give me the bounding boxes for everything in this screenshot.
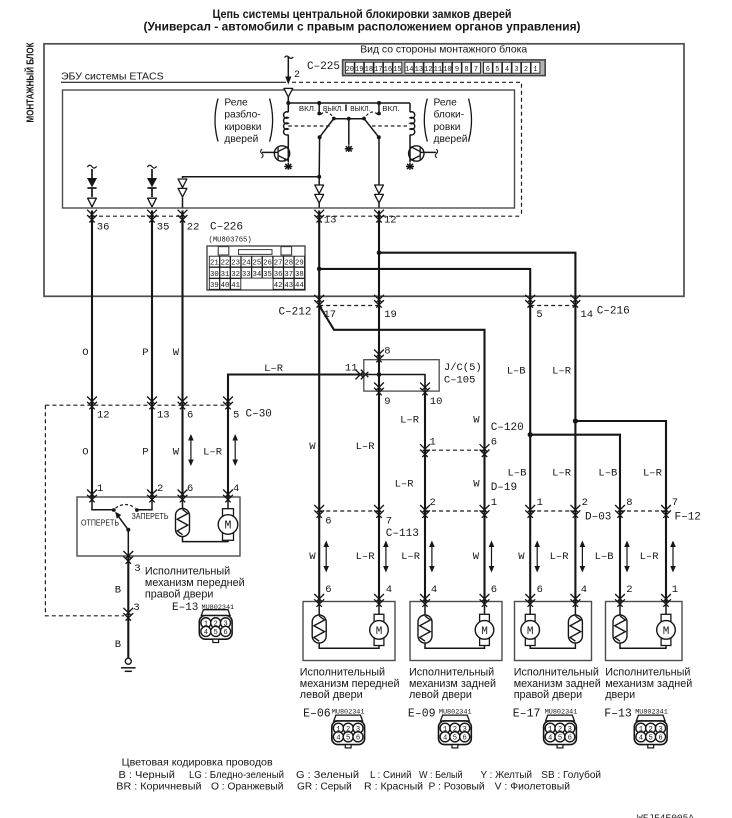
svg-text:J/C(5): J/C(5) (444, 362, 482, 374)
svg-text:25: 25 (253, 260, 262, 268)
svg-text:42: 42 (274, 282, 283, 290)
svg-text:3: 3 (133, 602, 139, 614)
svg-text:29: 29 (295, 260, 304, 268)
svg-text:4: 4 (505, 66, 509, 74)
svg-text:Исполнительный: Исполнительный (145, 566, 230, 578)
svg-text:32: 32 (231, 271, 240, 279)
svg-text:C–226: C–226 (210, 222, 243, 234)
svg-text:ровки: ровки (434, 122, 461, 133)
svg-text:2: 2 (430, 497, 436, 509)
svg-text:MU802341: MU802341 (202, 604, 235, 612)
svg-text:левой двери: левой двери (300, 689, 363, 701)
svg-text:механизм задней: механизм задней (409, 678, 496, 690)
svg-text:ЗАПЕРЕТЬ: ЗАПЕРЕТЬ (132, 512, 169, 521)
svg-text:L–R: L–R (552, 366, 572, 378)
svg-text:21: 21 (210, 260, 219, 268)
svg-text:35: 35 (263, 271, 272, 279)
svg-text:E–13: E–13 (172, 602, 198, 614)
svg-text:O: O (82, 347, 88, 359)
svg-text:MU802341: MU802341 (439, 709, 472, 717)
svg-text:23: 23 (231, 260, 240, 268)
svg-text:7: 7 (386, 516, 392, 528)
svg-text:MU802341: MU802341 (545, 709, 578, 717)
svg-text:механизм передней: механизм передней (300, 678, 400, 690)
svg-text:P: P (142, 447, 148, 459)
svg-text:7: 7 (474, 66, 478, 74)
svg-text:39: 39 (210, 282, 219, 290)
svg-text:W: W (309, 551, 316, 563)
svg-text:6: 6 (491, 584, 497, 596)
svg-text:24: 24 (242, 260, 251, 268)
svg-text:8: 8 (464, 66, 468, 74)
svg-text:ОТПЕРЕТЬ: ОТПЕРЕТЬ (81, 518, 119, 527)
svg-text:правой двери: правой двери (514, 689, 582, 701)
svg-text:C–216: C–216 (597, 306, 630, 318)
svg-text:4: 4 (431, 584, 437, 596)
svg-text:44: 44 (295, 282, 304, 290)
svg-text:10: 10 (430, 396, 443, 408)
svg-text:27: 27 (274, 260, 283, 268)
svg-text:кировки: кировки (224, 122, 261, 133)
svg-text:P : Розовый: P : Розовый (429, 782, 485, 793)
svg-text:40: 40 (221, 282, 230, 290)
svg-text:L–R: L–R (356, 441, 376, 453)
svg-text:M: M (225, 520, 232, 533)
svg-text:W: W (309, 441, 316, 453)
svg-text:E–06: E–06 (303, 707, 331, 720)
svg-text:дверей: дверей (434, 134, 468, 145)
svg-text:14: 14 (405, 66, 413, 74)
svg-text:механизм передней: механизм передней (145, 577, 245, 589)
svg-text:Исполнительный: Исполнительный (514, 667, 599, 679)
svg-text:ЭБУ системы ETACS: ЭБУ системы ETACS (61, 71, 164, 83)
svg-text:F–12: F–12 (675, 512, 701, 524)
svg-text:механизм задней: механизм задней (605, 678, 692, 690)
svg-text:33: 33 (242, 271, 251, 279)
svg-text:4: 4 (581, 584, 587, 596)
svg-text:6: 6 (187, 410, 193, 422)
svg-text:W: W (173, 447, 180, 459)
svg-text:W: W (473, 479, 480, 491)
svg-text:7: 7 (672, 497, 678, 509)
svg-text:16: 16 (384, 66, 392, 74)
svg-text:L–R: L–R (395, 479, 415, 491)
svg-text:C–30: C–30 (246, 409, 272, 421)
svg-text:17: 17 (374, 66, 382, 74)
svg-text:L–B: L–B (598, 468, 617, 480)
svg-text:LG : Бледно-зеленый: LG : Бледно-зеленый (189, 770, 284, 781)
svg-text:BR : Коричневый: BR : Коричневый (116, 782, 201, 793)
svg-text:2: 2 (157, 483, 163, 495)
svg-text:W : Белый: W : Белый (419, 770, 463, 781)
svg-text:G : Зеленый: G : Зеленый (296, 770, 359, 781)
svg-text:L–R: L–R (203, 447, 223, 459)
svg-text:14: 14 (580, 309, 593, 321)
svg-text:разбло-: разбло- (224, 109, 260, 121)
svg-text:17: 17 (324, 309, 337, 321)
svg-text:19: 19 (384, 309, 397, 321)
svg-text:11: 11 (434, 66, 442, 74)
svg-text:C–212: C–212 (278, 307, 311, 319)
svg-text:WFJE4E005A: WFJE4E005A (637, 813, 694, 818)
svg-text:V : Фиолетовый: V : Фиолетовый (495, 782, 570, 793)
svg-text:C–225: C–225 (307, 61, 340, 73)
svg-text:Вид со стороны монтажного блок: Вид со стороны монтажного блока (360, 43, 527, 55)
svg-text:1: 1 (430, 437, 436, 449)
svg-text:ВКЛ.: ВКЛ. (382, 104, 399, 113)
svg-text:F–13: F–13 (604, 707, 632, 720)
svg-text:3: 3 (514, 66, 518, 74)
svg-text:L–R: L–R (401, 551, 421, 563)
svg-text:3: 3 (134, 563, 140, 575)
svg-text:5: 5 (495, 66, 499, 74)
svg-text:C–120: C–120 (491, 422, 524, 434)
svg-text:4: 4 (233, 483, 239, 495)
svg-text:2: 2 (294, 70, 300, 81)
svg-text:C–113: C–113 (386, 528, 419, 540)
svg-text:6: 6 (491, 437, 497, 449)
svg-text:9: 9 (384, 396, 390, 408)
svg-text:L–R: L–R (400, 415, 420, 427)
svg-text:D–03: D–03 (585, 512, 611, 524)
svg-text:1: 1 (97, 483, 103, 495)
svg-text:1: 1 (491, 497, 497, 509)
svg-text:6: 6 (486, 66, 490, 74)
svg-text:30: 30 (210, 271, 219, 279)
svg-text:E–17: E–17 (513, 707, 541, 720)
svg-text:37: 37 (284, 271, 293, 279)
svg-text:ВЫКЛ.: ВЫКЛ. (350, 104, 370, 113)
svg-text:B: B (115, 585, 121, 597)
svg-text:22: 22 (187, 222, 200, 234)
svg-text:28: 28 (284, 260, 293, 268)
svg-text:ВКЛ.: ВКЛ. (299, 104, 316, 113)
svg-text:R : Красный: R : Красный (364, 782, 423, 793)
svg-text:31: 31 (221, 271, 230, 279)
svg-text:P: P (142, 347, 148, 359)
svg-text:11: 11 (345, 363, 358, 375)
svg-text:6: 6 (537, 584, 543, 596)
svg-text:6: 6 (325, 584, 331, 596)
svg-text:W: W (473, 551, 480, 563)
svg-text:38: 38 (295, 271, 304, 279)
svg-text:W: W (173, 347, 180, 359)
svg-text:C–105: C–105 (444, 375, 476, 387)
svg-text:L–R: L–R (643, 468, 663, 480)
svg-text:L–R: L–R (264, 363, 284, 375)
svg-text:Реле: Реле (224, 98, 248, 109)
svg-text:15: 15 (393, 66, 401, 74)
svg-text:22: 22 (221, 260, 230, 268)
svg-text:MU802341: MU802341 (332, 709, 365, 717)
svg-text:2: 2 (626, 584, 632, 596)
svg-text:36: 36 (274, 271, 283, 279)
svg-text:B: B (115, 639, 121, 651)
svg-text:34: 34 (253, 271, 262, 279)
svg-text:10: 10 (443, 66, 451, 74)
svg-text:GR : Серый: GR : Серый (297, 782, 352, 793)
svg-text:Исполнительный: Исполнительный (409, 667, 494, 679)
svg-text:L–B: L–B (507, 366, 526, 378)
svg-text:19: 19 (355, 66, 363, 74)
svg-text:L–R: L–R (552, 468, 572, 480)
svg-text:(Универсал - автомобили с прав: (Универсал - автомобили с правым располо… (144, 20, 581, 34)
svg-text:5: 5 (233, 410, 239, 422)
svg-text:L : Синий: L : Синий (370, 770, 412, 781)
svg-text:6: 6 (187, 483, 193, 495)
svg-text:26: 26 (263, 260, 272, 268)
svg-text:2: 2 (582, 497, 588, 509)
svg-text:O : Оранжевый: O : Оранжевый (211, 782, 284, 793)
svg-text:МОНТАЖНЫЙ БЛОК: МОНТАЖНЫЙ БЛОК (24, 42, 37, 123)
svg-text:(MU803765): (MU803765) (209, 237, 252, 245)
svg-text:Цветовая кодировка проводов: Цветовая кодировка проводов (122, 758, 273, 769)
svg-text:двери: двери (605, 689, 635, 701)
svg-text:дверей: дверей (224, 134, 258, 145)
svg-text:L–R: L–R (356, 551, 376, 563)
svg-text:9: 9 (455, 66, 459, 74)
svg-text:8: 8 (626, 497, 632, 509)
svg-text:L–B: L–B (595, 551, 614, 563)
svg-text:12: 12 (384, 215, 397, 227)
svg-text:ВЫКЛ.: ВЫКЛ. (323, 104, 343, 113)
svg-text:SB : Голубой: SB : Голубой (541, 770, 601, 781)
svg-text:Реле: Реле (434, 98, 458, 109)
svg-text:12: 12 (97, 410, 110, 422)
svg-text:8: 8 (384, 346, 390, 358)
svg-text:1: 1 (672, 584, 678, 596)
svg-text:левой двери: левой двери (409, 689, 472, 701)
svg-text:6: 6 (325, 516, 331, 528)
svg-text:12: 12 (424, 66, 432, 74)
svg-text:L–R: L–R (550, 551, 570, 563)
svg-text:4: 4 (386, 584, 392, 596)
svg-text:L–R: L–R (640, 551, 660, 563)
svg-text:Исполнительный: Исполнительный (605, 667, 690, 679)
svg-text:2: 2 (524, 66, 528, 74)
svg-text:W: W (473, 415, 480, 427)
svg-text:B : Черный: B : Черный (119, 770, 175, 781)
svg-text:O: O (82, 447, 88, 459)
svg-text:D–19: D–19 (491, 482, 517, 494)
svg-text:W: W (518, 551, 525, 563)
svg-text:13: 13 (415, 66, 423, 74)
svg-text:E–09: E–09 (408, 707, 436, 720)
svg-text:20: 20 (346, 66, 354, 74)
svg-text:18: 18 (365, 66, 373, 74)
svg-text:13: 13 (157, 410, 170, 422)
svg-text:правой двери: правой двери (145, 589, 213, 601)
svg-text:L–B: L–B (507, 468, 526, 480)
svg-text:1: 1 (533, 66, 537, 74)
svg-text:35: 35 (157, 222, 170, 234)
svg-text:13: 13 (324, 215, 337, 227)
svg-text:5: 5 (536, 309, 542, 321)
svg-text:41: 41 (231, 282, 240, 290)
svg-text:43: 43 (284, 282, 293, 290)
svg-text:1: 1 (537, 497, 543, 509)
svg-text:механизм задней: механизм задней (514, 678, 601, 690)
svg-text:Исполнительный: Исполнительный (300, 667, 385, 679)
svg-text:36: 36 (97, 222, 110, 234)
svg-text:MU802341: MU802341 (635, 709, 668, 717)
svg-text:блоки-: блоки- (434, 109, 465, 121)
svg-text:Y : Желтый: Y : Желтый (481, 770, 533, 781)
